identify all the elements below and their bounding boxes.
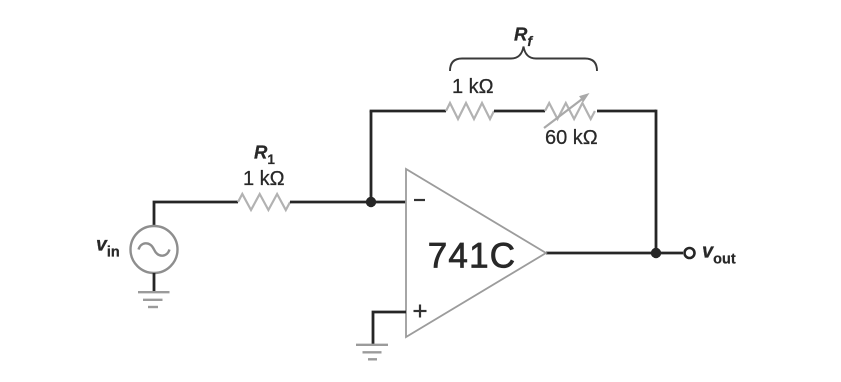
node junction at output <box>651 248 661 258</box>
rheostat 60 kOhm zigzag <box>545 103 595 119</box>
op-amp plus sign <box>414 310 427 312</box>
source vin circle <box>131 226 178 273</box>
wire op-amp plus input <box>373 312 406 344</box>
svg-text:1 kΩ: 1 kΩ <box>452 76 494 98</box>
svg-text:vin: vin <box>96 234 120 261</box>
svg-text:R1: R1 <box>254 142 275 168</box>
wire R1 to op-amp minus input <box>290 201 406 204</box>
wire between feedback resistors <box>494 110 545 113</box>
ground under source <box>138 291 170 293</box>
svg-text:vout: vout <box>702 241 736 268</box>
op-amp U1 triangle <box>406 169 546 337</box>
svg-text:Rf: Rf <box>514 24 533 50</box>
wire top horizontal right segment <box>597 110 656 113</box>
wire op-amp output <box>546 252 683 255</box>
wire source to ground <box>153 273 156 291</box>
svg-text:1 kΩ: 1 kΩ <box>243 168 285 190</box>
wire right vertical down to output <box>655 110 658 253</box>
wire feedback left vertical <box>370 111 373 202</box>
brace Rf <box>450 47 597 72</box>
resistor Rf 1 kOhm <box>446 103 494 119</box>
svg-text:60 kΩ: 60 kΩ <box>545 127 598 149</box>
rheostat arrow <box>544 99 583 128</box>
wire vin vertical + to R1 <box>154 202 238 226</box>
wire top horizontal left segment <box>370 110 446 113</box>
source sine wave <box>139 243 170 255</box>
node junction at inverting input <box>366 197 376 207</box>
resistor R1 <box>238 194 290 210</box>
ground at op-amp plus input <box>356 344 388 346</box>
op-amp minus sign <box>414 199 425 201</box>
svg-text:741C: 741C <box>428 237 516 276</box>
terminal vout open circle <box>685 248 695 258</box>
